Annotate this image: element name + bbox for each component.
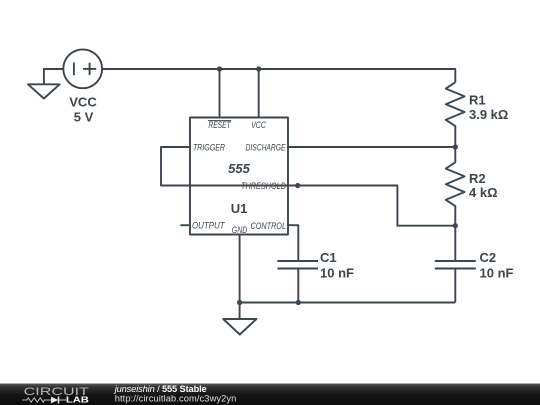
CircuitLab logo [22,386,89,404]
label VCC 5 V [69,95,97,125]
svg-text:10 nF: 10 nF [320,266,354,281]
label R2 4 kOhm [469,171,498,200]
svg-text:OUTPUT: OUTPUT [192,220,226,230]
svg-text:R2: R2 [469,171,486,186]
wire source to ground [44,69,63,84]
wire RESET drop [219,69,221,118]
wire TRIGGER loop through THRESHOLD to R2 bottom [161,147,455,226]
pin label RESET [208,120,232,130]
wire GND pin drop [239,235,241,303]
svg-text:5 V: 5 V [74,110,94,125]
svg-text:DISCHARGE: DISCHARGE [246,142,287,152]
svg-text:3.9 kΩ: 3.9 kΩ [469,107,508,122]
svg-text:C1: C1 [320,250,337,265]
svg-text:CONTROL: CONTROL [251,221,287,231]
wire OUTPUT stub [180,224,190,226]
capacitor C2 [435,226,476,303]
svg-text:10 nF: 10 nF [480,266,514,281]
junction dot rail/VCC [256,66,261,71]
voltage source VCC [63,49,102,88]
wire bottom rail [240,302,456,304]
IC U1 555 body [190,118,288,235]
svg-text:4 kΩ: 4 kΩ [469,185,498,200]
svg-text:GND: GND [232,225,248,235]
junction dot C1/bottom rail [296,300,301,305]
junction dot GND/bottom rail [237,300,242,305]
wire DISCHARGE to R1/R2 junction [288,146,455,148]
wire CONTROL to C1 [288,225,298,261]
resistor R2 [446,147,465,226]
label R1 3.9 kOhm [469,93,508,123]
svg-text:R1: R1 [469,93,486,108]
junction dot R2/THRESHOLD/C2 [453,223,458,228]
footer bar [0,384,540,405]
svg-text:VCC: VCC [69,95,97,110]
resistor R1 [446,82,465,147]
label C2 10 nF [480,250,514,281]
wire VCC pin drop [258,69,260,118]
svg-text:C2: C2 [480,250,497,265]
svg-text:VCC: VCC [251,120,266,130]
label C1 10 nF [320,250,354,281]
junction dot rail/RESET [217,66,222,71]
ground at VCC source [28,84,60,98]
svg-text:junseishin / 555 Stable: junseishin / 555 Stable [113,384,207,394]
junction dot R1/R2/DISCHARGE [453,144,458,149]
capacitor C1 [277,261,318,303]
svg-text:TRIGGER: TRIGGER [193,142,225,152]
svg-text:http://circuitlab.com/c3wy2yn: http://circuitlab.com/c3wy2yn [115,394,237,404]
svg-text:RESET: RESET [208,120,231,130]
svg-text:555: 555 [228,161,250,176]
ground at bottom [223,303,256,335]
svg-text:LAB: LAB [66,395,89,405]
junction dot THRESHOLD pin [295,183,300,188]
wire top rail from source to R1 [102,69,455,82]
svg-text:U1: U1 [231,201,248,216]
